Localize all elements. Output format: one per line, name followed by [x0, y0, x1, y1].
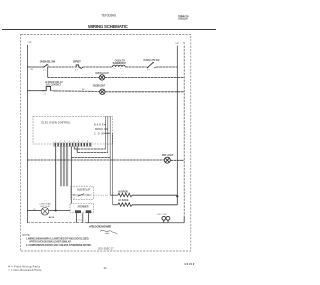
wire bottom neutral run left [27, 222, 86, 224]
wire row A to L2 [132, 194, 177, 196]
wire bundle vertical 4 [112, 133, 114, 205]
wire row2 drop from row1 [47, 67, 49, 78]
wire row A left link [110, 194, 118, 196]
svg-text:2. COMPONENTS RATED 120V UNLES: 2. COMPONENTS RATED 120V UNLESS OTHERWIS… [26, 244, 92, 247]
wire terminal drop 1 motor feed [55, 146, 57, 210]
wire row1 dashed c [125, 66, 146, 68]
svg-text:BAKE: BAKE [94, 124, 104, 127]
wire row3 to N [105, 91, 184, 93]
svg-text:10/02: 10/02 [184, 262, 194, 266]
wire terminal drop 7 [73, 146, 75, 149]
thermostat TH1 coil bumps [112, 65, 125, 67]
svg-text:5995311594: 5995311594 [178, 17, 189, 21]
svg-text:1 2 3: 1 2 3 [78, 220, 82, 222]
svg-text:DLB RELAY: DLB RELAY [77, 189, 91, 192]
wire row B to L2 node [132, 204, 177, 206]
electronic oven control box [33, 116, 112, 144]
motor B1 [41, 208, 49, 216]
lamp DS2 [100, 89, 105, 94]
svg-text:DOOR LIGHT: DOOR LIGHT [93, 84, 106, 87]
wire row3 left segment [27, 90, 42, 92]
junction dot L2 node [176, 195, 178, 197]
wire bottom neutral run right [86, 222, 184, 224]
wire L2 node drop [176, 196, 178, 205]
ground symbol coiled wire [100, 230, 117, 234]
transformer T1 secondary winding [86, 210, 91, 213]
relay K2 contact [72, 194, 91, 196]
svg-text:L2: L2 [176, 41, 179, 45]
title rule [2, 29, 216, 31]
svg-text:# FIELD GROUND WIRE: # FIELD GROUND WIRE [89, 226, 111, 229]
transformer T1 primary winding [75, 210, 81, 213]
transformer T1 box [70, 204, 94, 213]
svg-text:# = Field-Wiring Parts: # = Field-Wiring Parts [8, 264, 40, 268]
junction dot motor node [55, 210, 57, 212]
receptacle J1 [162, 216, 170, 222]
wire motor to junction [49, 210, 70, 212]
relay K1 contact [43, 86, 51, 90]
wire terminal drop 3 [61, 146, 63, 186]
wire row3 dashed [55, 90, 100, 93]
wire bundle vertical 1 [105, 116, 107, 149]
wire terminal drop 5 [64, 146, 66, 186]
wire L1 vertical [26, 45, 28, 223]
svg-text:# RC OUT: # RC OUT [157, 214, 169, 216]
wire row1 dashed a [49, 66, 74, 68]
wire row1 dashed b [83, 66, 112, 68]
svg-text:1 2 3 4 5 6 7 8: 1 2 3 4 5 6 7 8 [55, 141, 88, 143]
wire row1 dashed d [156, 66, 178, 68]
svg-text:HI BROIL: HI BROIL [119, 192, 130, 194]
svg-text:OVEN LITE SW: OVEN LITE SW [143, 59, 160, 62]
svg-text:L1: L1 [29, 40, 32, 44]
outer border frame [21, 35, 191, 252]
terminal strip frame [54, 142, 92, 146]
element R2 bake resistor [118, 203, 132, 207]
wire terminal drop 6 [70, 146, 72, 203]
svg-text:NOTE:: NOTE: [22, 233, 30, 237]
svg-text:BK W: BK W [49, 217, 54, 219]
wire L1 to motor [27, 210, 41, 212]
switch S2 contact [147, 62, 156, 68]
wire pin stub 2 [104, 128, 108, 130]
svg-text:BROIL: BROIL [95, 129, 104, 131]
wire L2 vertical [176, 46, 178, 197]
wire terminal drop 4 [62, 146, 64, 186]
wire terminal drop 8 [76, 146, 78, 152]
terminal strip on control box [55, 143, 91, 146]
svg-text:JEG-S99C-27: JEG-S99C-27 [98, 248, 114, 251]
wire transformer stub 2 [82, 213, 84, 223]
switch S1 contact [43, 64, 49, 67]
svg-text:† = Non-Illustrated Parts: † = Non-Illustrated Parts [8, 268, 42, 272]
svg-text:MW LIGHT: MW LIGHT [162, 154, 174, 157]
wire row1 left segment [27, 66, 43, 68]
svg-text:COM: COM [94, 133, 104, 135]
svg-text:HI BAKE: HI BAKE [119, 199, 129, 202]
svg-text:THERMOSTAT: THERMOSTAT [112, 62, 126, 65]
svg-text:XFORMER: XFORMER [78, 207, 89, 209]
wire N vertical [183, 46, 185, 223]
lamp DS3 [164, 157, 170, 163]
wire row2 to N [105, 77, 185, 79]
wire bottom to N riser [183, 217, 185, 223]
wire transformer stub 3 [88, 213, 90, 223]
svg-text:ELEC OVEN CONTROL: ELEC OVEN CONTROL [42, 122, 72, 124]
wire pin stub 1 [104, 124, 105, 126]
wire mid elbow H1 [74, 148, 105, 150]
svg-text:TEF303AS: TEF303AS [101, 14, 117, 18]
svg-text:N: N [183, 41, 185, 45]
wire terminal drop 5c [67, 146, 69, 186]
wire relay K2 to bundle [93, 194, 107, 196]
wire terminal drop 5b [65, 146, 67, 186]
svg-text:41: 41 [104, 266, 108, 270]
wire row2 dashed [48, 77, 100, 79]
wire mid elbow H2 [77, 152, 108, 154]
svg-text:1 2: 1 2 [73, 198, 76, 200]
wire pin stub 3 [104, 132, 110, 134]
wire bundle vertical 2 [107, 116, 109, 152]
wire mid line H4 from L1 [27, 159, 164, 161]
wire terminal drop 2 [59, 146, 61, 186]
wire bundle vertical 3 [109, 116, 111, 195]
relay box K2 [71, 186, 94, 199]
svg-text:WIRING SCHEMATIC: WIRING SCHEMATIC [88, 24, 129, 29]
wire mid line H3 to L2 [71, 157, 110, 159]
element R1 broil resistor [118, 193, 132, 197]
svg-text:UPPER OVEN SHOWN LOWER SIMILAR: UPPER OVEN SHOWN LOWER SIMILAR. [29, 241, 72, 244]
relay DPDT contact [75, 65, 82, 69]
wire row B left link [113, 204, 118, 206]
svg-text:DPDT: DPDT [73, 59, 81, 63]
svg-text:OVEN SEL SW: OVEN SEL SW [40, 61, 56, 64]
lamp DS1 [99, 75, 104, 80]
wire M2 lamp to N [170, 159, 184, 161]
wire transformer stub 1 [75, 213, 77, 223]
